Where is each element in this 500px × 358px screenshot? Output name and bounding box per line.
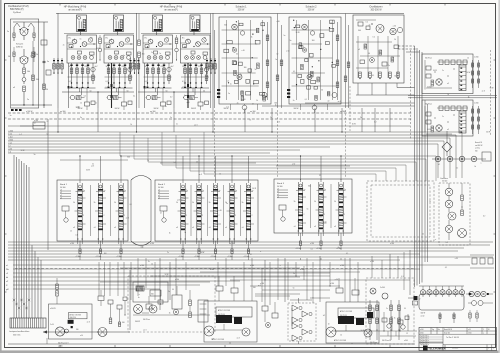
svg-text:4n7: 4n7 bbox=[171, 66, 174, 68]
resistor ladder 5.3 bbox=[158, 63, 160, 84]
oscillator tube O4 bbox=[445, 225, 452, 232]
terminal strip bbox=[10, 318, 46, 328]
svg-text:2x: 2x bbox=[240, 74, 242, 76]
svg-text:a 50: a 50 bbox=[242, 50, 245, 52]
svg-text:a: a bbox=[260, 251, 261, 253]
svg-text:50 300: 50 300 bbox=[442, 181, 447, 183]
svg-text:a: a bbox=[280, 265, 281, 267]
svg-text:Schacht 2: Schacht 2 bbox=[305, 5, 317, 8]
svg-text:Tag Nm 300 a: Tag Nm 300 a bbox=[420, 338, 429, 340]
svg-text:an 3: an 3 bbox=[211, 339, 214, 341]
BC2 above parts bbox=[336, 288, 343, 293]
svg-text:0,1: 0,1 bbox=[75, 234, 77, 236]
resistor ladder 6.2 bbox=[190, 63, 192, 84]
resistor R3 bbox=[32, 52, 35, 58]
svg-text:2x: 2x bbox=[388, 65, 390, 67]
IF strip C.3 cell 2 bbox=[339, 206, 343, 207]
svg-text:50: 50 bbox=[172, 289, 174, 291]
resistor ladder 5.2 bbox=[152, 63, 154, 84]
IF block C outline bbox=[274, 179, 352, 233]
S6 bottom resistor row bbox=[359, 72, 362, 78]
stage 5 right column bbox=[168, 63, 170, 84]
stage 6 small parts bbox=[183, 45, 187, 48]
svg-text:50 W: 50 W bbox=[433, 70, 437, 72]
V1 grid components bbox=[13, 33, 15, 38]
svg-text:Schacht 1: Schacht 1 bbox=[235, 5, 247, 8]
svg-text:an 300: an 300 bbox=[58, 345, 63, 347]
IF block A below resistor bbox=[99, 249, 101, 254]
svg-text:22n: 22n bbox=[198, 66, 201, 68]
right block 1 tall ladder bbox=[459, 65, 466, 91]
svg-text:aL: aL bbox=[6, 265, 8, 267]
bottom mesh horizontals bbox=[120, 267, 300, 269]
cross wiring above IF blocks bbox=[60, 159, 128, 161]
bottom mesh verticals bbox=[130, 262, 132, 300]
svg-text:1k: 1k bbox=[69, 66, 71, 68]
IF strip B.1 side taps bbox=[185, 197, 188, 199]
BR1 circles bbox=[370, 288, 376, 294]
svg-text:2x: 2x bbox=[293, 273, 295, 275]
svg-text:2x: 2x bbox=[338, 247, 340, 249]
svg-text:1k: 1k bbox=[394, 39, 396, 41]
inter-stage parts S3 bbox=[175, 38, 178, 44]
resistor R5 bbox=[43, 84, 46, 90]
svg-text:c3: c3 bbox=[6, 273, 8, 275]
svg-text:a: a bbox=[481, 162, 482, 164]
tube V70 bbox=[232, 24, 238, 30]
svg-text:50: 50 bbox=[488, 329, 490, 331]
tube V5 envelope bbox=[153, 15, 163, 32]
title block row1 bbox=[419, 330, 497, 332]
IF strip B.2 cell 1 bbox=[197, 194, 201, 195]
svg-text:a 300: a 300 bbox=[230, 243, 234, 245]
scan edge shading left bbox=[0, 0, 2, 353]
S6 wire rows bbox=[356, 41, 392, 43]
IF strip C.2 terminals bbox=[318, 230, 319, 231]
svg-text:an 300: an 300 bbox=[340, 111, 346, 113]
S6 boundary dashes bbox=[349, 86, 351, 131]
capacitor C2 bbox=[43, 60, 46, 62]
svg-text:300 W: 300 W bbox=[154, 108, 159, 110]
svg-text:5k: 5k bbox=[294, 201, 296, 203]
right bus horizontal top bbox=[398, 45, 415, 47]
stage 6 bottom bus bbox=[181, 87, 209, 89]
tube V5 anode column bbox=[159, 20, 162, 30]
svg-text:und 300 W: und 300 W bbox=[475, 145, 483, 147]
stage box V3 bbox=[67, 35, 97, 63]
tube V4 stem bbox=[117, 32, 119, 36]
IF strip A.2 rails bbox=[97, 183, 99, 238]
svg-text:1n: 1n bbox=[202, 190, 204, 192]
svg-text:2: 2 bbox=[219, 215, 220, 217]
output module BC1 dark rect 1 bbox=[216, 315, 232, 323]
stage 5 small parts bbox=[145, 45, 149, 48]
svg-text:a 3: a 3 bbox=[158, 195, 160, 197]
stage box V6 bbox=[181, 35, 211, 63]
svg-text:Schacht: Schacht bbox=[16, 43, 24, 46]
svg-text:2x: 2x bbox=[309, 77, 311, 79]
svg-text:a3: a3 bbox=[73, 227, 75, 229]
right block 1 outline bbox=[422, 54, 473, 94]
svg-text:5n: 5n bbox=[293, 287, 295, 289]
svg-text:a 50: a 50 bbox=[323, 221, 326, 223]
stage 5 bottom bus bbox=[144, 87, 172, 89]
svg-text:a3: a3 bbox=[114, 227, 116, 229]
svg-text:5k: 5k bbox=[94, 202, 96, 204]
svg-text:AT/DC OK 1963: AT/DC OK 1963 bbox=[218, 309, 230, 312]
svg-text:g 50: g 50 bbox=[9, 148, 13, 150]
coupling resistor group bbox=[53, 58, 55, 74]
svg-text:300 W 50: 300 W 50 bbox=[70, 317, 77, 319]
transistor Q5a bbox=[148, 39, 153, 44]
dashed separator line 2 bbox=[8, 118, 412, 120]
svg-text:4n7: 4n7 bbox=[95, 66, 98, 68]
bus junction dots bbox=[57, 131, 58, 132]
svg-text:86: 86 bbox=[204, 38, 206, 40]
svg-text:1k: 1k bbox=[397, 72, 399, 74]
svg-text:f2: f2 bbox=[6, 285, 8, 287]
svg-text:5n: 5n bbox=[92, 163, 94, 165]
IF strip B.4 cell 1 bbox=[230, 194, 234, 195]
amplifier chain box bbox=[288, 303, 316, 341]
svg-text:Band 1: Band 1 bbox=[60, 184, 68, 186]
svg-text:1k: 1k bbox=[145, 66, 147, 68]
right block 2 tube circle bbox=[436, 125, 442, 131]
svg-text:12: 12 bbox=[250, 254, 252, 256]
lower bus lines bbox=[8, 241, 493, 243]
block-to-bus drops bbox=[79, 258, 81, 260]
svg-text:12: 12 bbox=[219, 173, 221, 175]
transistor Q3b bbox=[82, 42, 87, 47]
svg-text:a3: a3 bbox=[192, 227, 194, 229]
svg-text:0,1: 0,1 bbox=[184, 189, 186, 191]
svg-text:50: 50 bbox=[236, 54, 238, 56]
svg-text:f 2: f 2 bbox=[9, 145, 11, 147]
IF strip B.4 cell 3 bbox=[230, 220, 234, 221]
tube V6 stem bbox=[193, 32, 195, 36]
svg-text:a3: a3 bbox=[334, 226, 336, 228]
svg-text:e an: e an bbox=[9, 142, 13, 144]
svg-text:a3: a3 bbox=[242, 227, 244, 229]
transistor Q3c bbox=[88, 38, 92, 42]
IF strip C.1 top parts bbox=[299, 184, 302, 187]
tube V3 stem bbox=[80, 32, 82, 36]
svg-text:2: 2 bbox=[304, 214, 305, 216]
between-block wires bbox=[408, 95, 497, 97]
stage 3 junction row bbox=[71, 87, 73, 88]
IF strip A.1 cell 3 bbox=[78, 220, 82, 221]
svg-text:1k: 1k bbox=[468, 97, 470, 99]
IF strip C.3 cell 3 bbox=[339, 219, 343, 220]
svg-text:2x: 2x bbox=[360, 117, 362, 119]
V2 side pins bbox=[20, 58, 21, 59]
IF strip A.2 top parts bbox=[99, 185, 102, 188]
svg-text:1: 1 bbox=[488, 348, 489, 350]
tube V10 bbox=[390, 28, 396, 34]
svg-text:2x: 2x bbox=[369, 25, 371, 27]
IF strip A.2 side taps bbox=[103, 197, 106, 199]
svg-text:300 W: 300 W bbox=[294, 108, 299, 110]
IF strip C.3 cell 1 bbox=[339, 193, 343, 194]
svg-text:2x: 2x bbox=[447, 94, 449, 96]
svg-text:12: 12 bbox=[47, 133, 49, 135]
svg-text:2x: 2x bbox=[168, 291, 170, 293]
svg-text:a: a bbox=[313, 297, 314, 299]
section boundary dashes bbox=[214, 110, 216, 178]
Schacht 8 outer box bbox=[289, 17, 341, 104]
bottom right cluster BR2 row1 bbox=[469, 291, 474, 296]
svg-text:a3: a3 bbox=[294, 226, 296, 228]
gap wires S5/S6 bbox=[345, 14, 347, 109]
Schacht 8 wire rows bbox=[292, 29, 330, 31]
IF block C bottom drops bbox=[300, 233, 302, 241]
title block logo bbox=[423, 346, 428, 351]
tube V83 bbox=[307, 75, 312, 80]
svg-text:Oszillator: Oszillator bbox=[440, 177, 448, 180]
svg-text:a 50: a 50 bbox=[319, 216, 322, 218]
svg-text:Band 2: Band 2 bbox=[158, 184, 166, 186]
tube V9 bbox=[376, 25, 384, 33]
amplifier chain group 2 bbox=[292, 323, 298, 329]
IF block feed junction dots bbox=[79, 155, 80, 156]
stage 6 trunk wire bbox=[187, 63, 189, 108]
svg-text:5k: 5k bbox=[242, 202, 244, 204]
stage 5 lower parts bbox=[161, 102, 166, 106]
svg-text:300: 300 bbox=[308, 186, 311, 188]
output module BC1 dark rect 2 bbox=[234, 317, 242, 324]
svg-text:50 W: 50 W bbox=[467, 72, 471, 74]
IF strip B.4 rails bbox=[229, 183, 231, 238]
svg-text:2: 2 bbox=[186, 215, 187, 217]
IF strip A.1 top parts bbox=[79, 185, 82, 188]
stage 3 pot group bbox=[70, 95, 75, 100]
S1 inner rail bbox=[32, 41, 34, 105]
IF strip A.3 cell 1 bbox=[119, 194, 123, 195]
IF strip A.1 rails bbox=[77, 183, 79, 238]
tube V82 bbox=[302, 48, 306, 52]
rounded coupler box bbox=[419, 294, 464, 310]
svg-text:5n: 5n bbox=[159, 53, 161, 55]
tube V71 bbox=[240, 31, 244, 35]
stage 4 junction row bbox=[108, 87, 110, 88]
IF strip B.5 cell 3 bbox=[246, 220, 250, 221]
svg-text:a 300: a 300 bbox=[140, 265, 144, 267]
svg-text:1k: 1k bbox=[95, 103, 97, 105]
stage 5 pot group bbox=[146, 95, 151, 100]
S1 outline box bbox=[11, 19, 39, 108]
BL1 pilot circle bbox=[65, 329, 69, 333]
svg-text:1n: 1n bbox=[324, 189, 326, 191]
svg-text:50: 50 bbox=[321, 90, 323, 92]
svg-text:a 3: a 3 bbox=[158, 192, 160, 194]
svg-text:an 300: an 300 bbox=[150, 111, 156, 113]
IF strip A.3 side taps bbox=[123, 197, 126, 199]
svg-text:1k: 1k bbox=[251, 37, 253, 39]
transformer BC1 T1 bbox=[204, 326, 214, 336]
right vertical bus bbox=[414, 46, 416, 287]
stage 4 small parts bbox=[106, 45, 110, 48]
Schacht 8 scattered parts bbox=[301, 79, 304, 83]
transistor Q5c bbox=[164, 38, 168, 42]
BL2 right parts bbox=[172, 295, 182, 309]
svg-text:a 300: a 300 bbox=[34, 120, 38, 122]
bottom right fill wires bbox=[332, 330, 417, 332]
svg-text:1k: 1k bbox=[467, 58, 469, 60]
IF strip B.2 cell 2 bbox=[197, 207, 201, 208]
IF strip A.1 cell 1 bbox=[78, 194, 82, 195]
svg-text:a 3: a 3 bbox=[158, 190, 160, 192]
svg-text:2x: 2x bbox=[297, 221, 299, 223]
svg-text:12: 12 bbox=[70, 231, 72, 233]
svg-text:300 W: 300 W bbox=[191, 108, 196, 110]
Oszillatoren outer box bbox=[353, 15, 404, 83]
IF block C below resistor bbox=[299, 241, 301, 246]
IF strip B.5 cell 2 bbox=[246, 207, 250, 208]
svg-text:12: 12 bbox=[252, 103, 254, 105]
svg-text:a 300: a 300 bbox=[390, 243, 394, 245]
S6 below-box wires bbox=[357, 83, 359, 95]
svg-text:22n: 22n bbox=[122, 66, 125, 68]
S1 top wires bbox=[13, 21, 48, 23]
S1 antenna arrows bbox=[14, 23, 20, 27]
IF block A label box lines bbox=[60, 190, 71, 192]
Schacht 8 connector blobs bbox=[287, 89, 290, 91]
svg-text:50 300: 50 300 bbox=[60, 187, 66, 189]
tube V5 electrodes bbox=[154, 21, 156, 29]
svg-text:5n: 5n bbox=[123, 55, 125, 57]
svg-text:300: 300 bbox=[224, 25, 227, 27]
svg-text:a 50: a 50 bbox=[292, 164, 295, 166]
tube V6 envelope bbox=[190, 15, 200, 32]
R3 wires bbox=[446, 152, 448, 156]
svg-text:a 50: a 50 bbox=[455, 258, 458, 260]
svg-text:an 3: an 3 bbox=[277, 122, 280, 124]
svg-text:a3: a3 bbox=[209, 227, 211, 229]
svg-text:a3: a3 bbox=[314, 226, 316, 228]
Schacht 7 below parts bbox=[242, 105, 247, 110]
svg-text:300 W: 300 W bbox=[135, 321, 140, 323]
BL1 main wire bbox=[43, 331, 130, 333]
svg-text:1000-1: 1000-1 bbox=[452, 348, 459, 350]
IF block C label box lines bbox=[277, 189, 288, 191]
IF block B below resistor bbox=[247, 249, 249, 254]
BR2 row2 bbox=[472, 301, 477, 306]
svg-text:1k: 1k bbox=[182, 66, 184, 68]
bottom section dashed boundary bbox=[15, 268, 415, 270]
svg-text:h 0: h 0 bbox=[9, 151, 12, 153]
svg-text:300: 300 bbox=[127, 157, 130, 159]
right vertical bus extra bbox=[424, 100, 426, 262]
bus line 3 bbox=[8, 137, 450, 139]
resistor ladder 4.3 bbox=[119, 63, 121, 84]
transistor Q4c bbox=[125, 38, 129, 42]
svg-text:12: 12 bbox=[406, 333, 408, 335]
IF strip C.3 side taps bbox=[343, 196, 346, 198]
svg-text:an 3: an 3 bbox=[258, 285, 261, 287]
svg-text:a3: a3 bbox=[225, 227, 227, 229]
svg-text:0,1: 0,1 bbox=[372, 75, 374, 77]
svg-text:a3: a3 bbox=[176, 227, 178, 229]
transformer BC1 T2 bbox=[242, 328, 250, 336]
amplifier chain wires bbox=[298, 298, 300, 303]
svg-text:2x: 2x bbox=[80, 117, 82, 119]
svg-text:a3: a3 bbox=[447, 129, 449, 131]
resistor ladder 3.2 bbox=[76, 63, 78, 84]
svg-text:b 2: b 2 bbox=[323, 315, 325, 317]
svg-text:5n: 5n bbox=[226, 203, 228, 205]
IF strip B.3 cell 2 bbox=[213, 207, 217, 208]
IF block B inner rails bbox=[190, 185, 192, 236]
coupler circle row bbox=[420, 290, 425, 295]
IF block B below resistor bbox=[182, 249, 184, 254]
tube V5 stem bbox=[156, 32, 158, 36]
stage 3 right column bbox=[92, 63, 94, 84]
svg-text:2x: 2x bbox=[474, 166, 476, 168]
IF strip B.2 terminals bbox=[196, 238, 197, 239]
svg-text:b 2: b 2 bbox=[438, 164, 440, 166]
svg-text:50: 50 bbox=[404, 308, 406, 310]
coupler row wire bbox=[419, 285, 464, 287]
BL1 left arrow bbox=[43, 330, 47, 333]
IF block B below resistor bbox=[214, 249, 216, 254]
svg-text:50 W: 50 W bbox=[394, 75, 398, 77]
tube V3 anode column bbox=[83, 20, 86, 30]
title block row2 bbox=[419, 333, 497, 335]
output module BC1 inner box bbox=[216, 307, 252, 317]
svg-text:a 300: a 300 bbox=[370, 261, 374, 263]
svg-text:a 3: a 3 bbox=[60, 192, 62, 194]
svg-text:0,1: 0,1 bbox=[84, 95, 86, 97]
tube V74 bbox=[262, 93, 267, 98]
IF block A bias parts bbox=[62, 206, 69, 211]
bus line 4 bbox=[8, 140, 444, 142]
Schacht 7 right column bbox=[267, 22, 269, 100]
resistor ladder 5.4 bbox=[163, 63, 165, 84]
svg-text:a 300: a 300 bbox=[300, 269, 304, 271]
svg-text:a 3: a 3 bbox=[60, 195, 62, 197]
svg-text:50 W: 50 W bbox=[86, 169, 90, 171]
BL1 box bbox=[49, 304, 93, 339]
mid-bottom extra parts bbox=[262, 306, 268, 311]
svg-text:Bearb 300 W: Bearb 300 W bbox=[444, 329, 453, 331]
IF strip B.1 cell 1 bbox=[181, 194, 185, 195]
IF strip C.2 rails bbox=[318, 182, 320, 230]
right block 1 left parts bbox=[426, 66, 431, 70]
svg-text:1k: 1k bbox=[130, 124, 132, 126]
BR1 frame bbox=[366, 278, 414, 344]
svg-text:1k: 1k bbox=[169, 312, 171, 314]
svg-text:1n: 1n bbox=[252, 190, 254, 192]
tube V73 bbox=[237, 75, 242, 80]
svg-text:12: 12 bbox=[34, 123, 36, 125]
svg-text:a 300: a 300 bbox=[9, 130, 14, 132]
IF strip B.2 rails bbox=[196, 183, 198, 238]
title block left sub rows bbox=[419, 336, 443, 338]
BL2 hatched part bbox=[136, 286, 144, 291]
resistor ladder 3.1 bbox=[71, 63, 73, 84]
svg-text:an 3: an 3 bbox=[143, 330, 146, 332]
svg-text:b 2: b 2 bbox=[366, 22, 368, 24]
svg-text:300 W an: 300 W an bbox=[370, 342, 377, 344]
tube V84 bbox=[332, 93, 337, 98]
svg-text:0,1: 0,1 bbox=[118, 191, 120, 193]
IF strip C.2 cell 3 bbox=[319, 219, 323, 220]
svg-text:50 W: 50 W bbox=[352, 123, 356, 125]
svg-text:a: a bbox=[203, 102, 204, 104]
svg-text:300 W: 300 W bbox=[238, 9, 245, 11]
right block 1 outside chains bbox=[472, 60, 474, 86]
V2 grid resistors bbox=[13, 52, 15, 57]
